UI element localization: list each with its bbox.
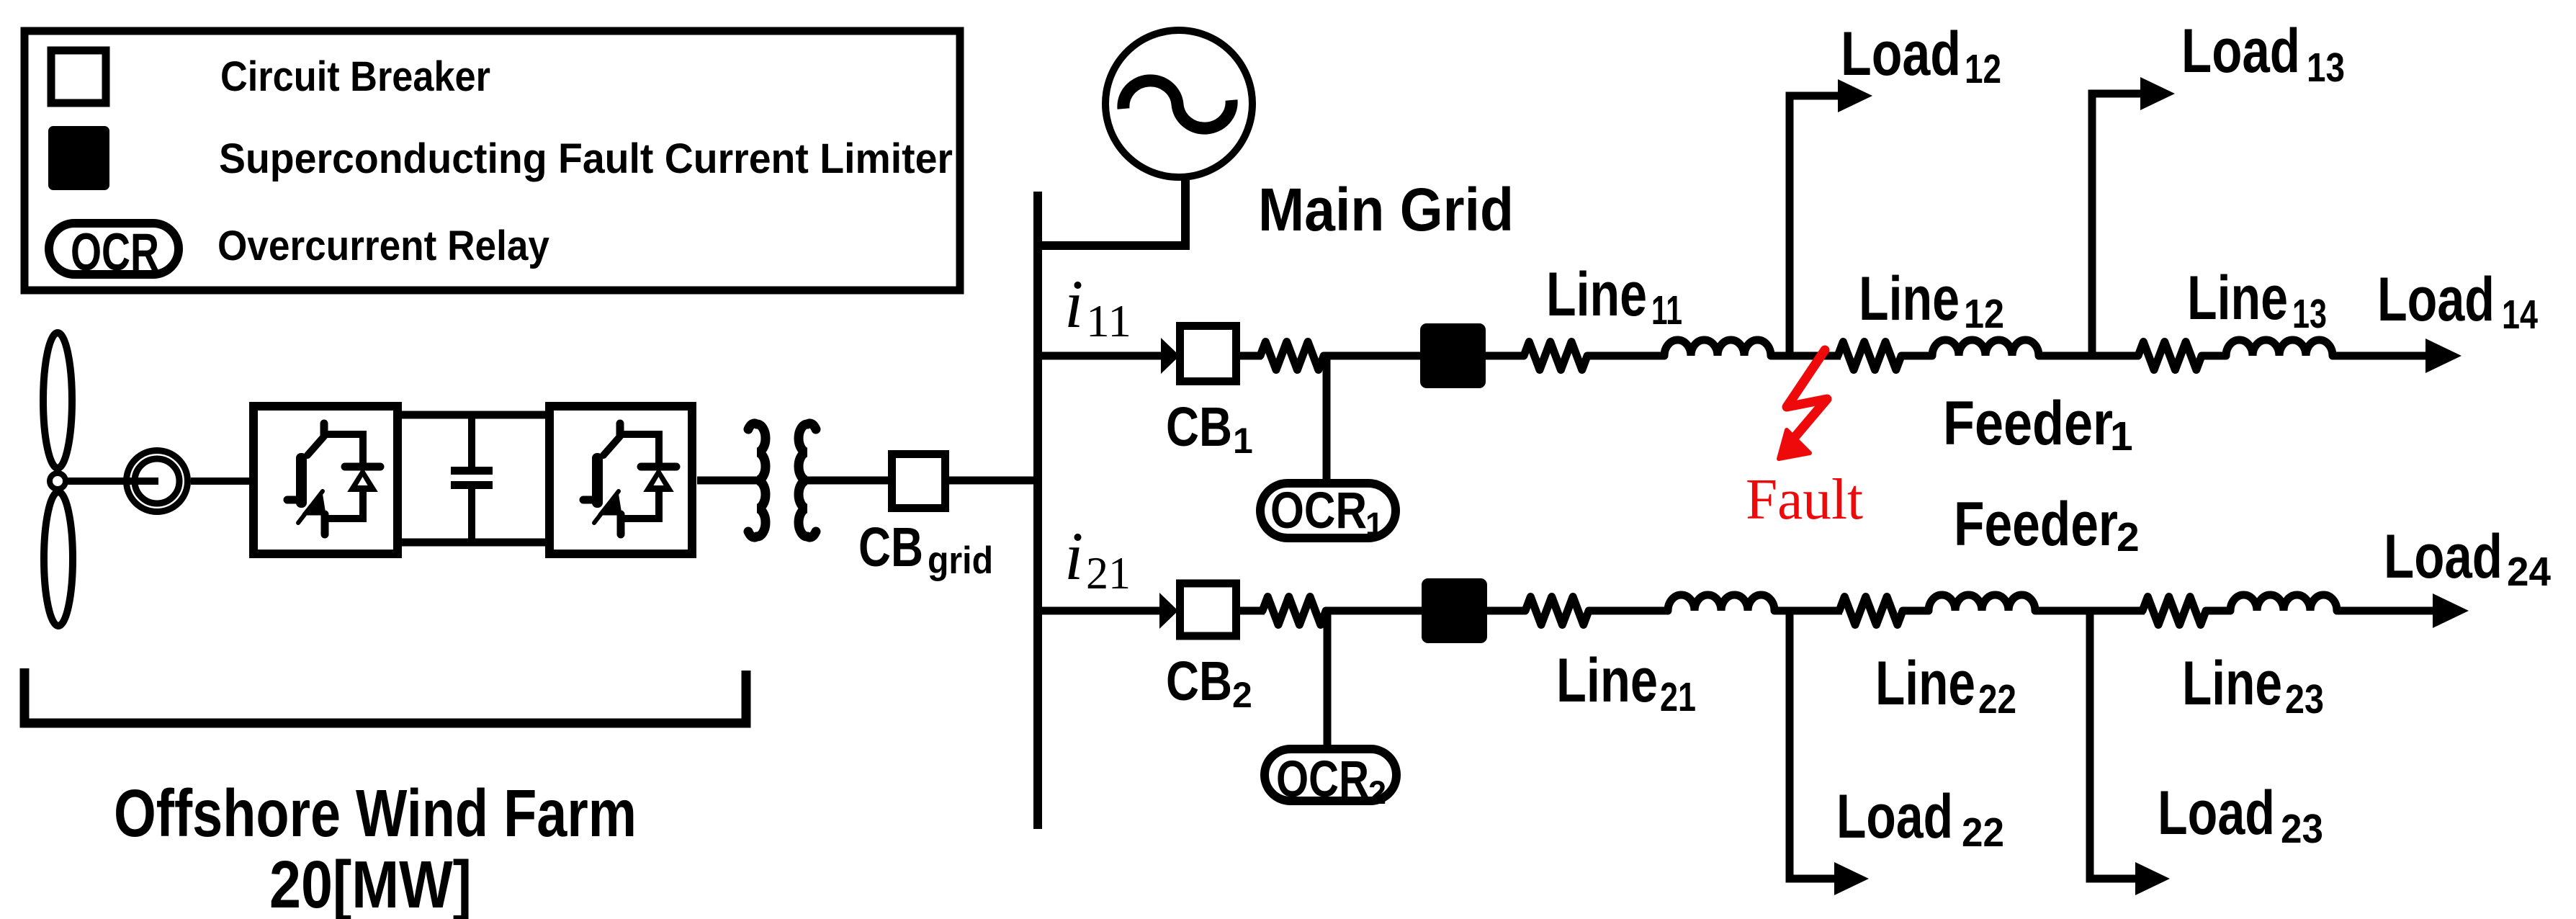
svg-text:22: 22 bbox=[1962, 810, 2004, 856]
svg-text:i: i bbox=[1064, 518, 1083, 594]
svg-text:Overcurrent Relay: Overcurrent Relay bbox=[217, 223, 549, 269]
svg-text:1: 1 bbox=[1365, 506, 1383, 542]
arrow Load13 bbox=[2140, 77, 2175, 110]
inductor L Line22 bbox=[1929, 595, 2035, 611]
resistor R Line11 bbox=[1524, 342, 1587, 370]
wire SFCL2 to resistor bbox=[1487, 607, 1526, 615]
svg-text:CB: CB bbox=[1166, 650, 1232, 712]
wire tap to OCR2 bbox=[1324, 611, 1332, 750]
svg-text:14: 14 bbox=[2502, 292, 2538, 338]
wire Line22 to Line23 bbox=[2035, 607, 2145, 615]
arrow Load12 bbox=[1838, 79, 1872, 112]
wire Line12 to Line13 bbox=[2039, 352, 2139, 360]
svg-text:23: 23 bbox=[2285, 676, 2324, 722]
branch wire to Load12 bbox=[1790, 96, 1841, 356]
legend SFCL symbol bbox=[48, 126, 109, 190]
dc link rails bbox=[402, 411, 545, 419]
svg-text:11: 11 bbox=[1651, 287, 1682, 333]
svg-text:Offshore Wind Farm: Offshore Wind Farm bbox=[114, 776, 637, 851]
resistor R Line12 bbox=[1838, 342, 1901, 370]
wire bus to CB2 bbox=[1038, 607, 1162, 615]
inductor L Line21 bbox=[1668, 595, 1774, 611]
svg-text:Load: Load bbox=[2377, 265, 2495, 334]
wire transformer to CBgrid bbox=[807, 477, 888, 485]
resistor R Line23 bbox=[2142, 597, 2206, 625]
wire to Load14 arrow bbox=[2333, 352, 2428, 360]
svg-text:20[MW]: 20[MW] bbox=[269, 847, 472, 919]
svg-text:grid: grid bbox=[928, 539, 993, 582]
resistor R Line13 bbox=[2138, 342, 2202, 370]
arrow into CB2 bbox=[1159, 593, 1178, 629]
svg-text:2: 2 bbox=[1232, 675, 1252, 715]
wire CBgrid to bus bbox=[949, 477, 1042, 485]
inductor L Line13 bbox=[2226, 340, 2333, 356]
branch wire to Load23 bbox=[2090, 611, 2138, 879]
svg-text:OCR: OCR bbox=[71, 223, 159, 282]
bus bar bbox=[1033, 192, 1042, 829]
wire converter to transformer bbox=[697, 477, 758, 485]
wire main grid to bus bbox=[1181, 179, 1190, 246]
branch wire to Load13 bbox=[2092, 94, 2142, 356]
resistor R Line21 bbox=[1525, 597, 1589, 625]
wire tap to OCR1 bbox=[1323, 356, 1331, 483]
main grid AC source bbox=[1105, 30, 1252, 177]
svg-text:23: 23 bbox=[2281, 806, 2323, 852]
arrow Load24 bbox=[2433, 593, 2469, 628]
svg-text:2: 2 bbox=[2117, 514, 2140, 560]
svg-text:Load: Load bbox=[2181, 17, 2300, 86]
wire inductor to Line22 bbox=[1774, 607, 1842, 615]
svg-text:CB: CB bbox=[1166, 396, 1232, 458]
svg-text:Load: Load bbox=[2158, 779, 2275, 848]
svg-text:Line: Line bbox=[2182, 649, 2282, 718]
IGBT U2 bbox=[583, 423, 676, 534]
resistor R11a bbox=[1260, 342, 1324, 370]
svg-text:Main Grid: Main Grid bbox=[1258, 176, 1514, 243]
arrow Load22 bbox=[1834, 862, 1869, 895]
svg-text:1: 1 bbox=[2110, 413, 2133, 459]
SFCL1 (superconducting fault current limiter) bbox=[1420, 323, 1486, 388]
inductor L Line23 bbox=[2230, 595, 2337, 611]
inductor L Line11 bbox=[1664, 340, 1771, 356]
svg-text:Feeder: Feeder bbox=[1943, 389, 2113, 458]
wire CB2 to resistor bbox=[1240, 607, 1265, 615]
turbine hub bbox=[50, 473, 66, 489]
svg-text:Superconducting Fault Current: Superconducting Fault Current Limiter bbox=[219, 135, 953, 182]
svg-text:Feeder: Feeder bbox=[1954, 490, 2118, 559]
circuit breaker CB1 bbox=[1180, 326, 1237, 382]
wire bbox=[1901, 352, 1933, 360]
wire bus to CB1 bbox=[1038, 352, 1164, 360]
wire to inductor bbox=[1589, 607, 1669, 615]
svg-text:Line: Line bbox=[1556, 646, 1658, 715]
legend circuit-breaker symbol bbox=[51, 50, 106, 103]
wire inductor to Line12 bbox=[1771, 352, 1841, 360]
svg-text:CB: CB bbox=[858, 516, 923, 578]
svg-text:Line: Line bbox=[2187, 264, 2288, 333]
generator G1 bbox=[127, 451, 188, 512]
transformer T1 secondary winding bbox=[799, 423, 816, 537]
arrow Load23 bbox=[2135, 862, 2170, 895]
svg-text:12: 12 bbox=[1964, 291, 2004, 337]
wire SFCL1 to resistor bbox=[1486, 352, 1525, 360]
inductor L Line12 bbox=[1932, 340, 2039, 356]
svg-text:12: 12 bbox=[1965, 46, 2001, 92]
dc link capacitor C1 bbox=[468, 415, 475, 468]
IGBT U1 bbox=[287, 423, 380, 534]
wire bbox=[2206, 607, 2231, 615]
resistor R21a bbox=[1262, 597, 1326, 625]
svg-text:24: 24 bbox=[2507, 549, 2551, 595]
SFCL2 bbox=[1422, 578, 1487, 643]
wire bbox=[1903, 607, 1929, 615]
wire resistor to SFCL1 bbox=[1324, 352, 1422, 360]
svg-text:21: 21 bbox=[1660, 674, 1696, 720]
bracket offshore wind farm bbox=[24, 668, 746, 723]
svg-text:13: 13 bbox=[2307, 45, 2345, 91]
svg-text:OCR: OCR bbox=[1276, 751, 1369, 808]
legend box bbox=[24, 31, 960, 290]
wire CB1 to resistor bbox=[1240, 352, 1262, 360]
wire resistor to SFCL2 bbox=[1326, 607, 1423, 615]
wind turbine blades bbox=[43, 333, 72, 468]
svg-text:Load: Load bbox=[1836, 782, 1953, 851]
transformer T1 primary winding bbox=[748, 423, 766, 537]
svg-text:Line: Line bbox=[1546, 260, 1647, 329]
wire generator to converter bbox=[191, 478, 249, 485]
converter box U2 (grid-side) bbox=[549, 406, 692, 554]
fault lightning bolt bbox=[1787, 350, 1827, 436]
overcurrent relay OCR1 bbox=[1260, 483, 1396, 538]
wire to Load24 arrow bbox=[2337, 607, 2436, 615]
svg-text:i: i bbox=[1064, 266, 1083, 342]
svg-text:Load: Load bbox=[1841, 19, 1961, 89]
converter box U1 (machine-side) bbox=[253, 406, 398, 554]
svg-text:Fault: Fault bbox=[1746, 468, 1863, 532]
resistor R Line22 bbox=[1839, 597, 1903, 625]
svg-text:Line: Line bbox=[1875, 649, 1975, 718]
svg-text:2: 2 bbox=[1368, 774, 1386, 811]
svg-text:11: 11 bbox=[1086, 295, 1131, 346]
circuit breaker CBgrid bbox=[892, 454, 946, 508]
wire bbox=[2202, 352, 2227, 360]
overcurrent relay OCR2 bbox=[1265, 749, 1396, 801]
arrow into CB1 bbox=[1161, 338, 1180, 374]
arrow Load14 bbox=[2425, 339, 2461, 373]
shaft wire bbox=[64, 478, 158, 485]
svg-text:Load: Load bbox=[2384, 522, 2503, 591]
wire to inductor bbox=[1587, 352, 1665, 360]
legend OCR symbol bbox=[49, 223, 179, 274]
circuit breaker CB2 bbox=[1180, 583, 1237, 636]
svg-text:13: 13 bbox=[2292, 291, 2327, 337]
svg-text:OCR: OCR bbox=[1270, 483, 1367, 539]
svg-text:21: 21 bbox=[1086, 547, 1131, 599]
svg-text:1: 1 bbox=[1233, 421, 1253, 461]
branch wire to Load22 bbox=[1790, 611, 1837, 879]
svg-text:22: 22 bbox=[1978, 676, 2016, 722]
svg-text:Circuit Breaker: Circuit Breaker bbox=[220, 53, 490, 100]
svg-text:Line: Line bbox=[1859, 264, 1960, 333]
